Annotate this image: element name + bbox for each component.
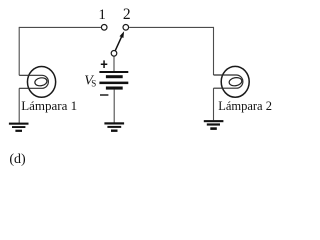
label Vs: [84, 74, 96, 89]
wire top right horizontal: [129, 26, 213, 28]
label Lampara 1: [21, 98, 77, 113]
lamp 2 filament leads: [214, 75, 243, 88]
label Lampara 2: [218, 99, 272, 113]
lamp 2 bulb outline: [221, 66, 249, 97]
wire switch pivot to battery: [113, 57, 115, 72]
ground left: [9, 123, 29, 132]
lamp 1 bulb outline: [27, 66, 55, 97]
lamp 1 filament leads: [19, 75, 48, 88]
wire top left horizontal: [19, 26, 101, 28]
label terminal 2: [123, 6, 131, 23]
wire left vertical lower: [18, 88, 20, 123]
svg-text:(d): (d): [9, 152, 26, 167]
battery minus sign: [100, 94, 108, 95]
lamp 2 filament loop: [229, 77, 243, 87]
svg-text:S: S: [91, 79, 96, 89]
switch pivot circle: [111, 51, 117, 57]
svg-text:Lámpara 2: Lámpara 2: [218, 99, 272, 113]
wire left vertical upper: [18, 27, 20, 75]
wire battery to ground: [113, 90, 115, 123]
battery plate long lower: [99, 82, 128, 85]
wire right vertical upper: [213, 27, 215, 75]
switch arm arrowhead: [120, 31, 125, 38]
battery plate short bottom: [106, 87, 123, 90]
battery plate long top: [99, 71, 128, 73]
ground right: [204, 120, 224, 130]
battery plus sign: [101, 60, 108, 68]
wire right vertical lower: [213, 88, 215, 120]
svg-text:Lámpara 1: Lámpara 1: [21, 98, 77, 113]
ground battery: [104, 122, 124, 132]
svg-text:1: 1: [98, 7, 106, 23]
switch terminal 2 circle: [123, 25, 129, 31]
switch terminal 1 circle: [101, 25, 107, 31]
lamp 1 filament loop: [34, 77, 47, 87]
label (d): [9, 152, 26, 167]
switch arm: [115, 36, 122, 51]
battery plate short upper: [106, 75, 123, 78]
label terminal 1: [98, 7, 106, 23]
svg-text:2: 2: [123, 6, 131, 23]
